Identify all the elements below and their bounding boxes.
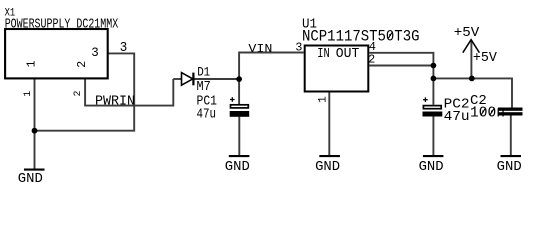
svg-text:PWRIN: PWRIN (95, 94, 135, 109)
svg-text:2: 2 (73, 90, 84, 96)
svg-text:3: 3 (120, 40, 128, 56)
svg-text:1: 1 (26, 60, 39, 67)
svg-text:GND: GND (225, 160, 250, 175)
svg-text:+5V: +5V (473, 50, 498, 66)
svg-text:3: 3 (295, 40, 302, 54)
svg-text:VIN: VIN (248, 42, 272, 56)
svg-text:2: 2 (76, 61, 89, 68)
svg-text:GND: GND (18, 172, 43, 187)
svg-text:OUT: OUT (336, 47, 360, 62)
svg-text:1: 1 (23, 91, 34, 97)
svg-text:100n: 100n (470, 105, 505, 122)
svg-text:47u: 47u (197, 106, 217, 122)
svg-text:GND: GND (419, 160, 444, 175)
svg-text:+5V: +5V (454, 25, 480, 41)
svg-text:GND: GND (315, 160, 340, 175)
svg-text:3: 3 (91, 45, 99, 60)
svg-text:1: 1 (318, 96, 330, 103)
svg-text:D1: D1 (197, 65, 210, 79)
svg-text:POWERSUPPLY_DC21MMX: POWERSUPPLY_DC21MMX (5, 17, 119, 32)
svg-text:IN: IN (317, 47, 330, 62)
svg-text:2: 2 (368, 52, 375, 66)
svg-text:47u: 47u (444, 109, 470, 125)
svg-text:NCP1117ST50T3G: NCP1117ST50T3G (302, 27, 420, 45)
svg-text:GND: GND (497, 160, 522, 175)
